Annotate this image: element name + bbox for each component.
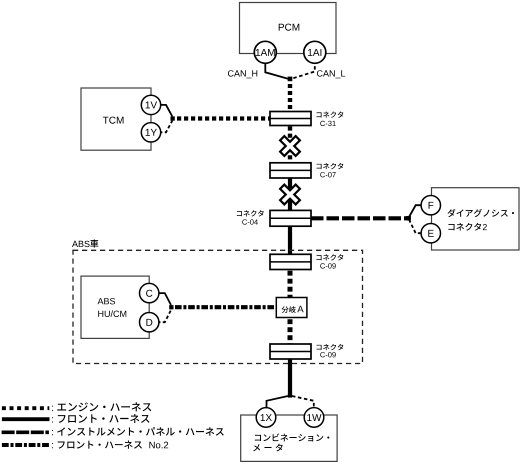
wire C-07 to C-04 through splice X2 (front harness solid) <box>288 178 292 210</box>
wire TCM junction to C-31 (engine harness dotted) <box>177 116 270 120</box>
wire junction to pin F (solid) <box>409 205 422 217</box>
pin C <box>140 283 159 302</box>
wire C-09 to branch A (dotted) <box>288 271 293 298</box>
wire PCM pin 1AM to CAN junction (solid) <box>265 60 288 79</box>
wire PCM pin 1AI to CAN junction (dashed) <box>292 60 315 79</box>
diagnosis connector 2 box <box>432 188 520 250</box>
wire junction to pin 1W (dashed) <box>292 396 314 409</box>
label connector C-09 upper <box>317 254 344 268</box>
net label CAN_H <box>228 70 257 78</box>
pin 1V <box>141 95 160 114</box>
wire junction to C-31 (engine harness dotted) <box>288 84 292 112</box>
label connector C-09 lower <box>317 344 344 358</box>
wire TCM pin 1Y to junction (dashed) <box>159 121 172 133</box>
wire ABS junction to branch A (front harness No.2 dash-dot) <box>175 305 276 309</box>
wire C-31 to C-07 through splice X1 (dotted) <box>288 126 292 162</box>
branch A box <box>276 298 307 318</box>
TCM module box <box>81 88 151 150</box>
pin 1AI <box>304 41 326 63</box>
wire C-04 to C-09 (front harness solid) <box>288 226 292 254</box>
legend front harness No.2 sample line <box>2 441 168 449</box>
combination meter box <box>241 415 337 461</box>
meter junction dot <box>288 393 292 397</box>
connector C-31 <box>270 112 311 126</box>
pin D <box>140 313 159 332</box>
label connector C-07 <box>317 163 344 178</box>
wire C-04 to diagnosis junction (instrument panel harness long dash) <box>311 216 408 220</box>
wire ABS pin C to junction (solid) <box>157 293 171 305</box>
CAN junction dot <box>288 77 293 82</box>
wire C-09 lower to meter junction (front harness solid) <box>288 359 292 396</box>
label ABS vehicle <box>72 239 98 247</box>
net label CAN_L <box>317 70 345 78</box>
wire TCM pin 1V to junction (solid) <box>159 105 172 117</box>
connector C-09 lower <box>270 344 311 359</box>
pin 1X <box>256 408 276 428</box>
wire ABS pin D to junction (dashed) <box>157 310 171 322</box>
legend instrument panel harness sample line <box>2 427 224 436</box>
pin 1Y <box>141 123 160 142</box>
pin E <box>421 224 440 243</box>
pin 1W <box>304 408 324 428</box>
TCM junction dot <box>171 116 175 120</box>
wire junction to pin E (dashed) <box>409 220 422 234</box>
ABS junction dot <box>169 305 173 309</box>
pin 1AM <box>254 41 276 63</box>
wire junction to pin 1X (solid) <box>267 396 289 409</box>
connector C-04 <box>270 210 311 226</box>
legend engine harness sample line <box>2 402 151 411</box>
legend front harness sample line <box>2 414 150 423</box>
connector C-09 upper <box>270 254 311 269</box>
connector C-07 <box>270 163 311 178</box>
label connector C-04 <box>237 210 264 225</box>
PCM module box <box>240 3 337 54</box>
diagnosis junction dot <box>406 216 411 221</box>
splice cross X1 <box>274 130 305 161</box>
label connector C-31 <box>317 111 344 126</box>
ABS HU/CM module box <box>81 276 149 338</box>
wire branch A to C-09 lower (dotted) <box>288 319 293 344</box>
pin F <box>421 196 440 215</box>
splice cross X2 <box>274 179 305 210</box>
ABS vehicle dashed enclosure <box>73 250 363 363</box>
